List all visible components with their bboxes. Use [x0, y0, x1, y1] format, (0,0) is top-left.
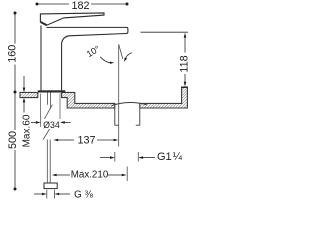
- curved arrow right: [125, 53, 132, 59]
- svg-text:Max.210: Max.210: [71, 170, 109, 181]
- svg-text:Ø34: Ø34: [43, 120, 60, 130]
- faucet body: [41, 26, 62, 91]
- svg-text:G1¼: G1¼: [157, 151, 183, 163]
- supply hoses: [43, 93, 52, 184]
- svg-text:Max.60: Max.60: [21, 114, 32, 147]
- counter left slab: [20, 92, 38, 97]
- dim 118 extension line: [141, 31, 189, 33]
- svg-text:500: 500: [7, 131, 19, 149]
- svg-text:G ⅜: G ⅜: [74, 190, 94, 200]
- dim 118: [184, 37, 186, 83]
- dim G 3/8 ticks: [47, 190, 55, 199]
- dim 500 line: [14, 92, 16, 189]
- dim 160 line: [14, 13, 16, 92]
- tilt line 10deg: [119, 44, 123, 59]
- dim O34 arrows: [31, 121, 36, 123]
- dim 137: [58, 139, 114, 141]
- counter lower slab right of drain: [140, 87, 188, 108]
- water stream line: [118, 44, 120, 146]
- drain tailpiece brackets: [115, 108, 140, 125]
- hose end fitting: [44, 183, 57, 189]
- drain dome cap: [112, 102, 147, 105]
- basin post cap: [181, 86, 188, 88]
- svg-text:160: 160: [6, 45, 18, 63]
- dim G 3/8 arrows and label: [34, 193, 42, 195]
- dim O34 extension lines: [41, 94, 60, 128]
- dim Max.210: [57, 174, 71, 176]
- svg-text:182: 182: [71, 0, 89, 12]
- svg-text:118: 118: [178, 55, 190, 72]
- curved arrow left: [100, 57, 111, 63]
- faucet spout: [46, 27, 128, 43]
- dim G1 1/4 arrows and label: [100, 157, 110, 159]
- Max.210 extension tick: [126, 167, 128, 182]
- svg-text:137: 137: [77, 134, 95, 146]
- counter right slab with step: [62, 92, 115, 108]
- handle notch shadow: [41, 22, 47, 25]
- base flange: [38, 90, 66, 92]
- dim 182 line: [37, 3, 127, 5]
- dim G1 1/4 ticks: [115, 152, 139, 162]
- faucet handle lever: [40, 13, 104, 25]
- dim Max.60: [23, 76, 25, 113]
